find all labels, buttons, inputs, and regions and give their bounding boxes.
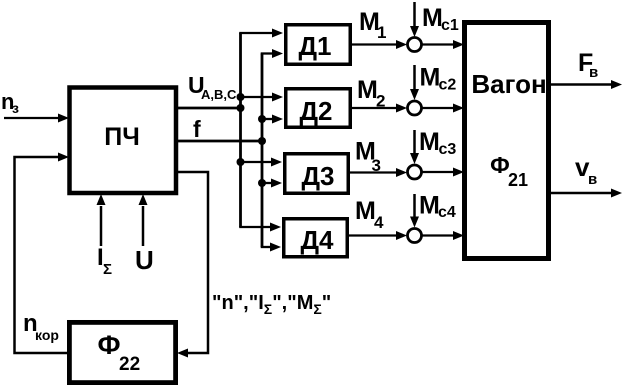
svg-text:c1: c1 [441,17,459,34]
wire from S3 to Vagon [422,168,465,177]
label Mc3 [419,128,456,158]
label F_v [578,49,598,81]
svg-text:c4: c4 [438,204,456,221]
block Vagon (wagon) F21 [465,23,549,259]
node U line junction [237,104,245,112]
wire branch to D2 upper input [241,93,284,102]
wire M2 from D2 to summing junction 2 [352,104,407,113]
wire M1 from D1 to summing junction 1 [352,40,407,49]
label v_v [575,152,597,188]
svg-text:22: 22 [119,354,140,375]
wire branch to D1 lower input [261,49,283,58]
block D1 (motor 1) [286,25,351,65]
svg-text:U: U [135,245,154,275]
summing junction S2 [408,101,422,115]
block PCh (frequency converter) U1 [70,88,177,194]
svg-text:M: M [422,4,443,32]
wire branch to D1 upper input [239,29,283,38]
node D3 upper junction [237,158,245,166]
svg-text:з: з [12,100,19,116]
wire from S2 to Vagon [422,104,465,113]
label M2 [357,76,385,111]
svg-text:кор: кор [35,327,59,343]
svg-text:Σ: Σ [103,261,112,278]
svg-text:A,B,C: A,B,C [201,87,237,102]
block D4 (motor 4) [284,219,348,257]
svg-text:Д4: Д4 [301,225,335,255]
svg-text:Ф: Ф [97,330,120,360]
label Mc4 [419,192,456,222]
block F22 (corrector) [69,322,175,382]
label U_ABC [188,72,237,102]
svg-text:4: 4 [374,213,384,232]
svg-text:в: в [589,64,598,81]
wire from S4 to Vagon [422,231,465,240]
svg-text:3: 3 [372,156,381,175]
summing junction S4 [408,229,422,243]
wire I_sum input arrow into PCh bottom [97,194,106,246]
wire branch to D4 upper input [239,223,281,232]
wire v_v output [550,189,622,198]
wire U bus vertical [239,33,242,227]
wire branch to D3 upper input [241,158,283,167]
wire n_kor feedback from F22 to PCh [15,153,70,354]
wire M4 from D4 to summing junction 4 [349,231,407,240]
wire F_v output [550,80,622,89]
label n3 [1,89,19,116]
wire M3 from D3 to summing junction 3 [350,168,407,177]
svg-text:M: M [419,128,440,156]
svg-text:Д1: Д1 [299,31,332,61]
label I_sum [97,244,112,278]
summing junction S1 [408,38,422,52]
svg-text:M: M [419,192,440,220]
svg-text:Ф: Ф [490,152,510,178]
wire branch to D4 lower input [261,243,281,252]
svg-text:2: 2 [376,92,385,111]
svg-text:1: 1 [377,23,386,42]
label Mc1 [422,4,459,34]
wire from S1 to Vagon [422,40,465,49]
wire Mc3 arrow into S3 [410,130,419,164]
wire U input arrow into PCh bottom [139,194,148,246]
label M4 [355,197,384,232]
wire branch to D3 lower input [262,179,282,188]
svg-text:f: f [193,116,201,142]
svg-text:c2: c2 [439,77,457,94]
svg-text:Д2: Д2 [300,96,333,126]
svg-text:Вагон: Вагон [471,69,546,99]
wire Mc2 arrow into S2 [410,65,419,100]
wire f output line from PCh [177,140,262,143]
wire f bus vertical [261,54,264,248]
label M1 [359,8,386,42]
svg-text:M: M [355,197,376,225]
svg-text:M: M [357,76,378,104]
wire U_ABC output line from PCh [177,107,240,110]
block D2 (motor 2) [286,89,351,128]
wire feedback tap from PCh to F22 [177,172,208,358]
svg-text:Д3: Д3 [302,161,335,191]
label n_kor [23,310,59,343]
node D2 lower junction [258,115,266,123]
label Mc2 [420,64,457,94]
svg-text:21: 21 [508,170,528,190]
svg-text:M: M [420,64,441,92]
node D2 upper junction [237,93,245,101]
wire Mc1 arrow into S1 [410,2,419,37]
svg-text:c3: c3 [439,141,457,158]
svg-text:в: в [588,171,597,188]
label M3 [355,138,381,176]
block D3 (motor 3) [285,154,349,194]
wire n3 input arrow into PCh [4,114,69,123]
wire branch to D2 lower input [262,115,283,124]
svg-text:ПЧ: ПЧ [104,123,140,151]
wire Mc4 arrow into S4 [410,194,419,228]
node f line junction [258,137,266,145]
node D3 lower junction [258,179,266,187]
summing junction S3 [408,165,422,179]
